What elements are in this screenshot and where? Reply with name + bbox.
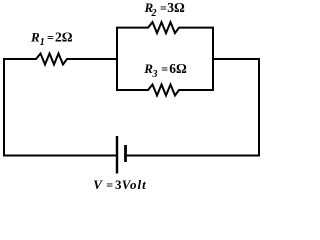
svg-text:1: 1 xyxy=(40,37,45,48)
svg-text:2Ω: 2Ω xyxy=(55,29,73,44)
svg-text:3: 3 xyxy=(115,177,122,192)
svg-text:R: R xyxy=(30,29,40,44)
svg-text:6Ω: 6Ω xyxy=(169,61,187,76)
svg-text:3: 3 xyxy=(152,69,158,80)
svg-text:Volt: Volt xyxy=(122,177,147,192)
svg-text:=: = xyxy=(161,62,168,76)
svg-text:=: = xyxy=(106,178,113,192)
svg-text:=: = xyxy=(47,30,54,44)
svg-text:=: = xyxy=(160,1,167,15)
svg-text:V: V xyxy=(93,177,103,192)
svg-text:2: 2 xyxy=(151,8,157,19)
svg-text:3Ω: 3Ω xyxy=(167,0,185,15)
